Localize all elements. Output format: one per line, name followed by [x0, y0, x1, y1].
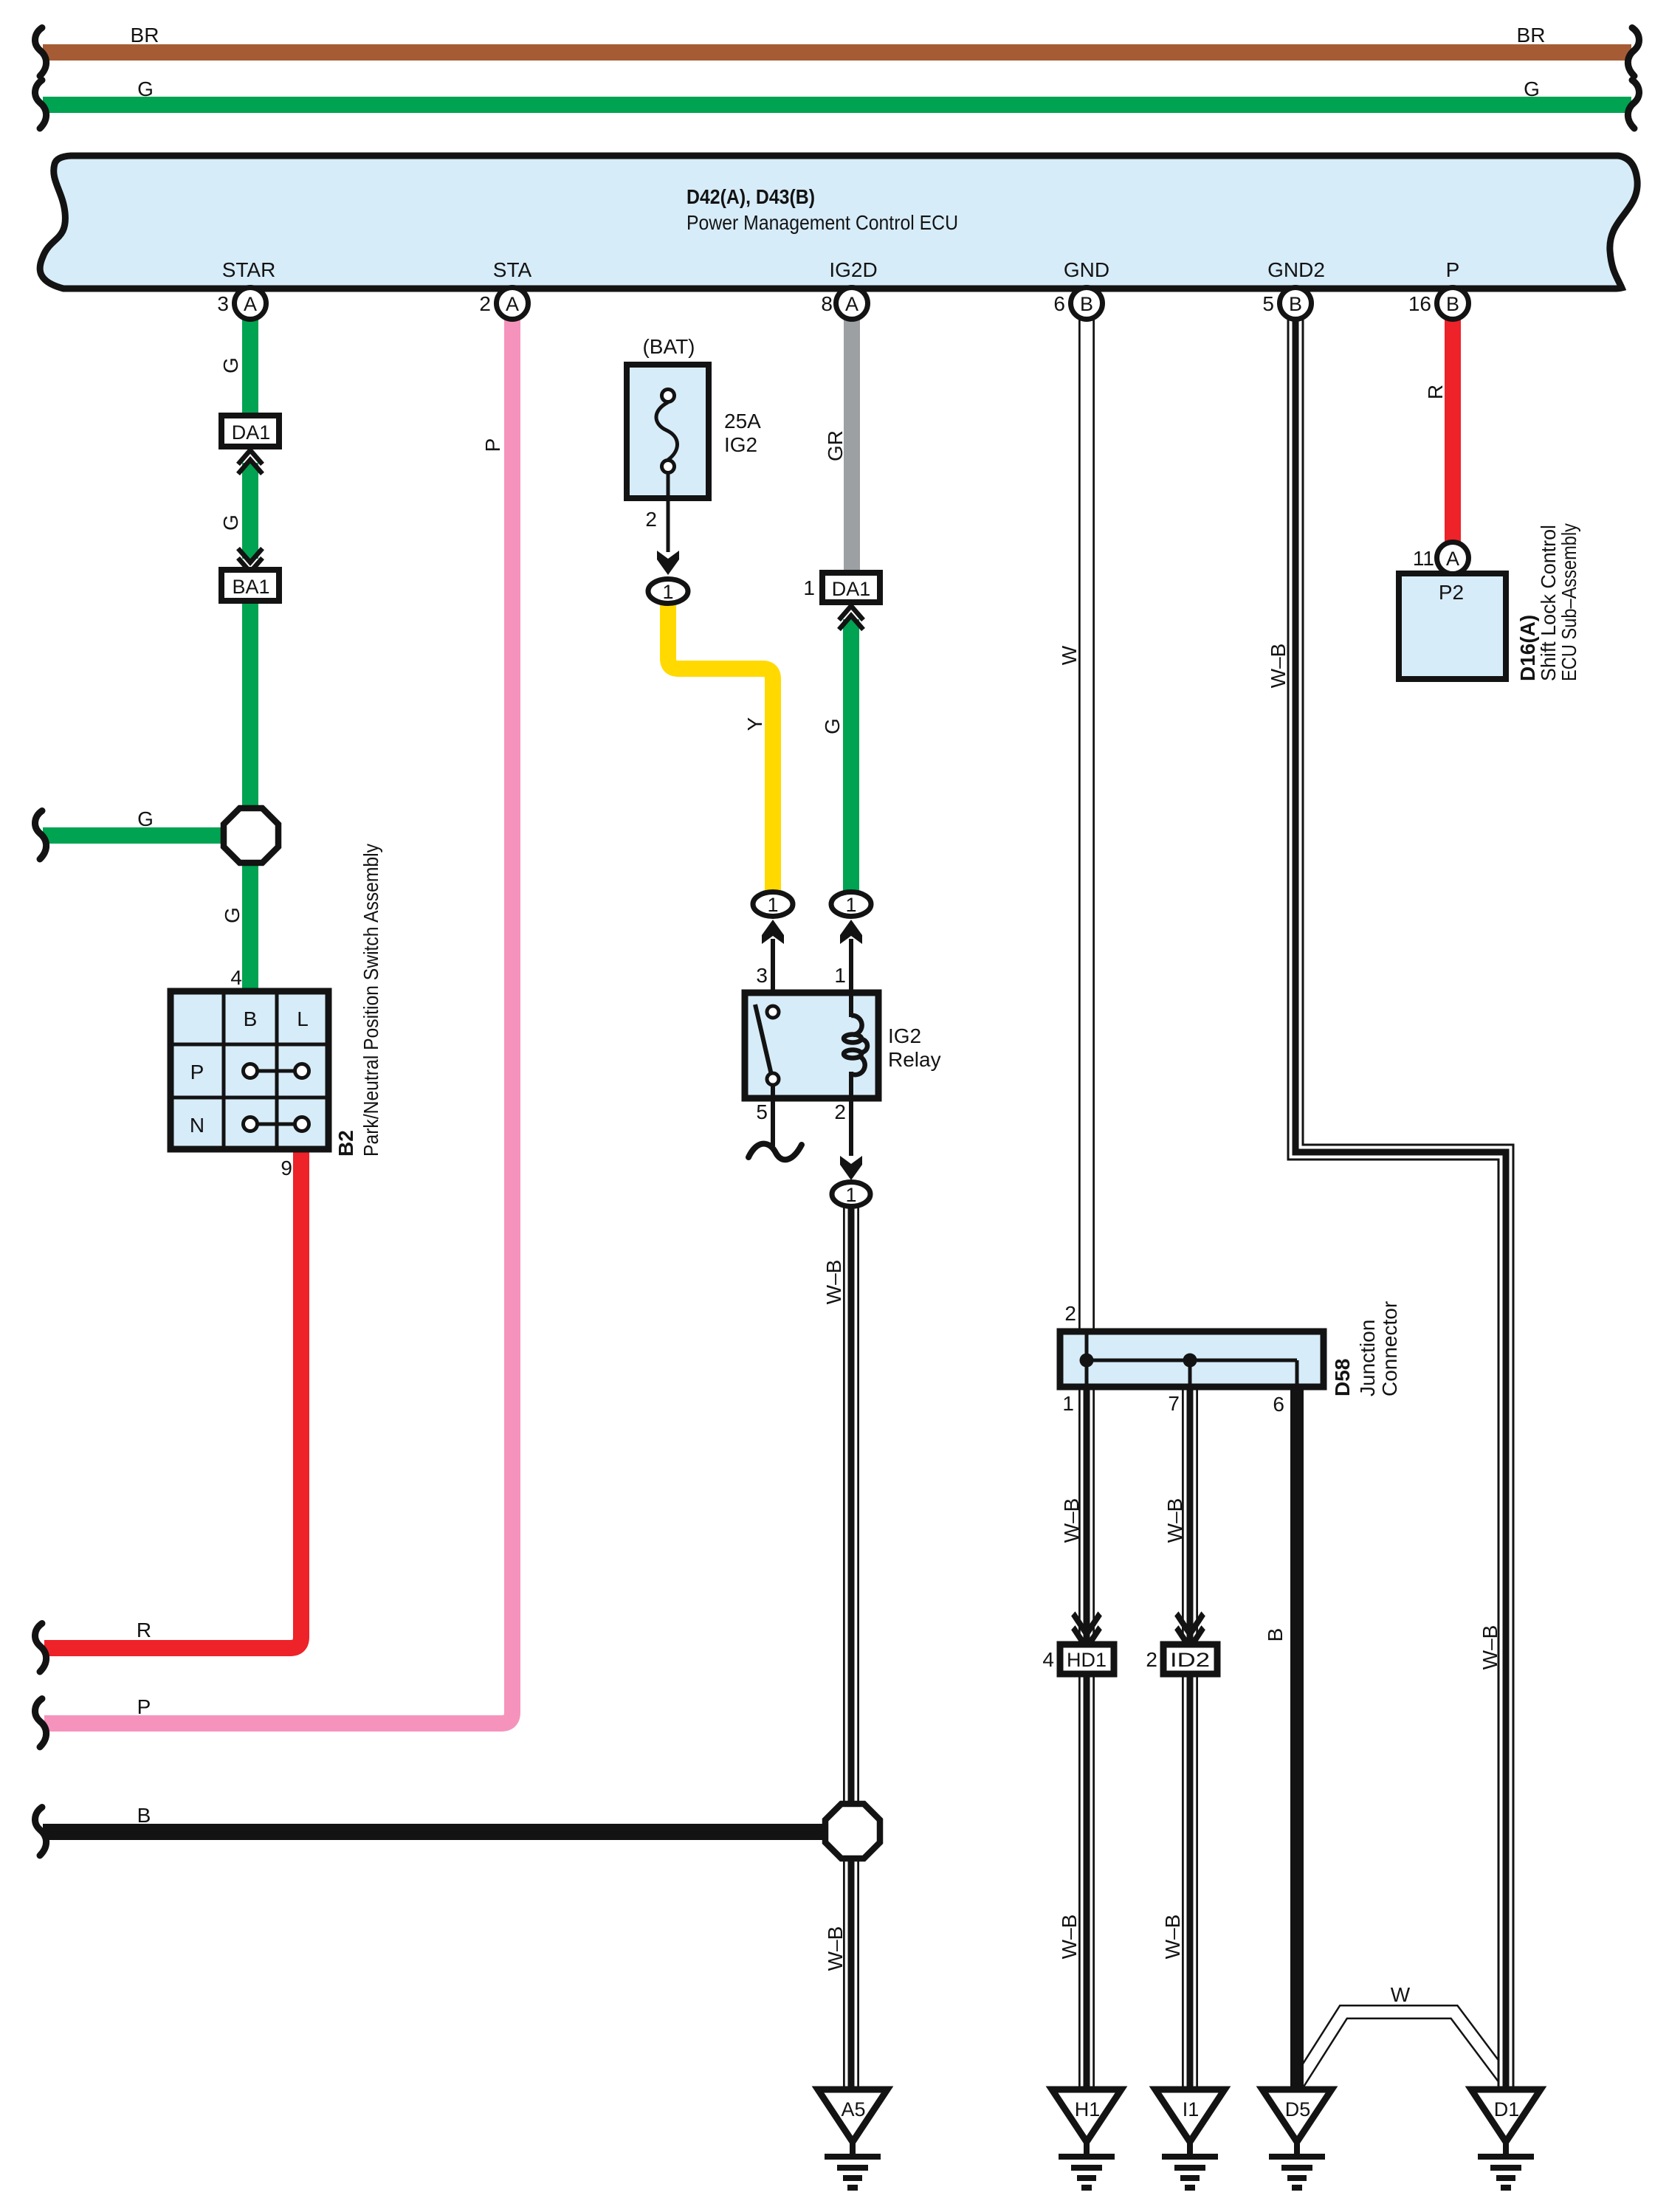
svg-text:B: B	[1289, 293, 1302, 315]
svg-text:N: N	[190, 1114, 204, 1137]
connector HD1 pin 4 box	[1060, 1644, 1114, 1674]
connector 1 ellipse below fuse	[648, 579, 688, 604]
svg-text:P: P	[481, 438, 504, 452]
svg-text:BA1: BA1	[232, 576, 269, 598]
svg-text:GND: GND	[1064, 258, 1109, 281]
svg-text:A: A	[845, 293, 858, 315]
connector ID2 pin 2 box	[1163, 1644, 1217, 1674]
svg-text:W–B: W–B	[1161, 1915, 1184, 1960]
svg-text:1: 1	[803, 576, 815, 599]
shift lock control ECU P2 box	[1399, 573, 1506, 679]
colored wires	[43, 52, 1631, 1832]
svg-text:3: 3	[217, 292, 229, 315]
relay coil	[844, 1016, 867, 1075]
double chevron up below DA1	[238, 450, 263, 474]
svg-text:GR: GR	[824, 430, 847, 461]
svg-text:D16(A): D16(A)	[1516, 615, 1539, 681]
connector circle A pin 11	[1437, 542, 1469, 574]
svg-text:W–B: W–B	[1058, 1915, 1081, 1960]
svg-text:G: G	[137, 807, 154, 830]
svg-text:3: 3	[756, 964, 768, 987]
outlined wires	[851, 313, 1507, 2093]
svg-text:Connector: Connector	[1378, 1301, 1401, 1396]
arrow up to ellipse, relay pin 3	[762, 920, 784, 944]
svg-text:8: 8	[821, 292, 833, 315]
arrow up to ellipse, relay pin 1	[840, 920, 862, 944]
svg-text:B: B	[1446, 293, 1459, 315]
ground D5	[1262, 2089, 1332, 2188]
svg-text:9: 9	[281, 1157, 292, 1179]
ECU pin circle STAR 3(A)	[235, 288, 266, 320]
arrow into connector 1 below fuse	[657, 551, 679, 575]
svg-text:Park/Neutral Position Switch A: Park/Neutral Position Switch Assembly	[359, 844, 382, 1157]
svg-text:B: B	[137, 1804, 151, 1827]
svg-text:IG2: IG2	[724, 433, 757, 456]
svg-text:1: 1	[662, 581, 673, 603]
junction connector D58 box	[1060, 1331, 1324, 1387]
wire G (green) top	[43, 97, 1631, 113]
connector DA1 pin 1 box on IG2D wire	[822, 573, 880, 602]
svg-text:DA1: DA1	[832, 578, 871, 600]
svg-text:1: 1	[1062, 1392, 1074, 1415]
connector BA1 pin 9 box	[221, 570, 279, 601]
ground D1	[1471, 2089, 1541, 2188]
octagon joint on W-B wire	[825, 1804, 880, 1858]
svg-text:G: G	[821, 718, 844, 734]
svg-text:16: 16	[1408, 292, 1431, 315]
ECU Power Management Control ECU box D42(A),D43(B)	[40, 156, 1637, 289]
svg-text:2: 2	[1064, 1302, 1076, 1325]
svg-text:W: W	[1058, 645, 1081, 665]
connector DA1 pin 2 box	[221, 416, 279, 447]
wire B (black) horizontal into octagon joint	[43, 1824, 838, 1840]
ground I1	[1155, 2089, 1225, 2188]
svg-text:2: 2	[834, 1100, 846, 1123]
svg-text:HD1: HD1	[1067, 1649, 1107, 1671]
svg-text:A: A	[244, 293, 257, 315]
svg-text:IG2D: IG2D	[829, 258, 877, 281]
svg-text:B2: B2	[334, 1130, 357, 1157]
wire P (pink) from ECU STA pin 2	[44, 313, 512, 1723]
svg-text:B: B	[244, 1007, 258, 1030]
connector 1 ellipse above relay pin 1	[831, 892, 871, 917]
svg-text:P2: P2	[1439, 581, 1464, 604]
svg-text:B: B	[1264, 1628, 1287, 1642]
svg-text:W–B: W–B	[1267, 644, 1290, 689]
wire break squiggle P left	[35, 1699, 47, 1748]
relay pin 2 lead and arrow down	[849, 1098, 853, 1156]
svg-text:D58: D58	[1331, 1359, 1354, 1396]
wire break squiggle R left	[35, 1624, 47, 1672]
svg-text:BR: BR	[131, 24, 159, 46]
Park/Neutral Position Switch Assembly B2 box	[171, 991, 328, 1149]
ECU pin circle STA 2(A)	[497, 288, 529, 320]
svg-text:1: 1	[845, 894, 856, 916]
wire G from ECU STAR pin 3	[242, 313, 258, 993]
wire W hump joining grounds D5 and D1	[1298, 2012, 1507, 2083]
svg-text:Power Management Control ECU: Power Management Control ECU	[686, 211, 958, 234]
svg-text:Relay: Relay	[888, 1048, 941, 1071]
wire R (red) from ECU P pin 16	[1445, 313, 1461, 546]
svg-text:I1: I1	[1183, 2098, 1200, 2120]
svg-text:L: L	[297, 1007, 309, 1030]
svg-text:1: 1	[767, 894, 778, 916]
svg-text:W–B: W–B	[1479, 1625, 1501, 1670]
svg-text:STA: STA	[493, 258, 532, 281]
relay switch contacts	[755, 1005, 771, 1075]
ground H1	[1052, 2089, 1121, 2188]
svg-text:D42(A), D43(B): D42(A), D43(B)	[686, 185, 815, 208]
svg-text:5: 5	[756, 1100, 768, 1123]
svg-text:11: 11	[1413, 547, 1434, 570]
connector 1 ellipse below relay pin 2	[832, 1182, 870, 1207]
svg-text:W–B: W–B	[1060, 1498, 1083, 1543]
svg-text:2: 2	[1146, 1648, 1157, 1671]
relay pin 5 lead with break	[771, 1085, 775, 1146]
svg-text:D1: D1	[1494, 2098, 1520, 2120]
svg-text:R: R	[137, 1619, 151, 1641]
wire break squiggle BR right	[1628, 28, 1639, 77]
connector 1 ellipse above relay pin 3	[753, 892, 793, 917]
svg-text:P: P	[137, 1695, 151, 1718]
svg-text:1: 1	[845, 1184, 856, 1206]
svg-text:Y: Y	[743, 717, 766, 731]
wire break squiggle G right	[1628, 80, 1639, 129]
wire break squiggle G junction wire left	[35, 811, 47, 860]
svg-text:G: G	[1524, 77, 1540, 100]
double chevron down above BA1	[238, 548, 263, 572]
svg-text:STAR: STAR	[222, 258, 276, 281]
svg-text:Shift Lock Control: Shift Lock Control	[1537, 525, 1560, 681]
svg-text:B: B	[1080, 293, 1093, 315]
svg-text:W–B: W–B	[1163, 1498, 1186, 1543]
svg-text:2: 2	[645, 508, 657, 531]
svg-text:4: 4	[230, 966, 242, 989]
svg-text:7: 7	[1168, 1392, 1180, 1415]
wire R (red) from PNP switch pin 9	[44, 1145, 301, 1648]
ECU pin circle IG2D 8(A)	[836, 288, 868, 320]
ECU pin circle GND 6(B)	[1071, 288, 1103, 320]
svg-text:IG2: IG2	[888, 1024, 921, 1047]
svg-text:(BAT): (BAT)	[642, 335, 695, 358]
svg-text:6: 6	[1053, 292, 1065, 315]
svg-text:A5: A5	[841, 2098, 865, 2120]
IG2 relay box	[745, 993, 878, 1098]
svg-text:A: A	[506, 293, 519, 315]
svg-text:G: G	[219, 357, 242, 373]
ground A5	[818, 2089, 887, 2188]
wire break squiggle BR left	[35, 28, 47, 77]
wire W-B from D58 pin 7 to ground I1	[1182, 1382, 1198, 2093]
svg-text:ID2: ID2	[1170, 1649, 1210, 1671]
wire B (black) from D58 pin 6 to ground D5	[1290, 1382, 1304, 2093]
svg-text:P: P	[1446, 258, 1460, 281]
double chevron down above ID2	[1177, 1613, 1203, 1647]
svg-text:GND2: GND2	[1267, 258, 1325, 281]
svg-text:G: G	[137, 77, 154, 100]
svg-text:DA1: DA1	[232, 421, 271, 444]
svg-text:25A: 25A	[724, 410, 761, 433]
wire break squiggle B left	[35, 1808, 47, 1856]
svg-text:W–B: W–B	[822, 1260, 845, 1305]
svg-text:G: G	[219, 514, 242, 531]
svg-text:G: G	[221, 907, 244, 923]
svg-text:ECU Sub–Assembly: ECU Sub–Assembly	[1558, 523, 1580, 681]
wire W-B from IG2 relay pin 2 to ground A5	[843, 1205, 859, 2093]
svg-text:H1: H1	[1075, 2098, 1101, 2120]
wire BR (brown) top	[43, 44, 1631, 61]
svg-text:2: 2	[479, 292, 491, 315]
wire G horizontal into octagon joint	[43, 827, 236, 844]
wire G below DA1 to relay ellipse	[843, 619, 859, 893]
fuse 25A IG2	[627, 365, 709, 552]
wire GR (gray) from ECU IG2D pin 8	[844, 313, 860, 574]
svg-text:W–B: W–B	[824, 1926, 847, 1971]
svg-text:R: R	[1424, 385, 1447, 399]
svg-text:W: W	[1391, 1983, 1411, 2006]
wire W from ECU GND pin 6 to D58 pin 2	[1078, 313, 1095, 1336]
svg-text:A: A	[1446, 548, 1459, 570]
wire Y (yellow) from fuse to relay ellipse	[668, 599, 773, 893]
wire W-B from ECU GND2 pin 5 to ground D1	[1295, 313, 1506, 2093]
svg-text:5: 5	[1262, 292, 1274, 315]
svg-text:Junction: Junction	[1356, 1320, 1379, 1396]
svg-text:1: 1	[834, 964, 846, 987]
svg-text:4: 4	[1042, 1648, 1054, 1671]
svg-text:6: 6	[1273, 1393, 1284, 1416]
svg-text:D5: D5	[1285, 2098, 1311, 2120]
double chevron down above HD1	[1073, 1613, 1100, 1647]
svg-text:P: P	[190, 1061, 204, 1083]
svg-text:BR: BR	[1517, 24, 1546, 46]
double chevron up below DA1 pin1	[839, 606, 864, 630]
ECU pin circle P 16(B)	[1437, 288, 1469, 320]
wire break squiggle G left	[35, 80, 47, 129]
wire W-B from D58 pin 1 to ground H1	[1078, 1382, 1095, 2093]
octagon joint on STAR wire	[224, 808, 278, 863]
ECU pin circle GND2 5(B)	[1280, 288, 1312, 320]
